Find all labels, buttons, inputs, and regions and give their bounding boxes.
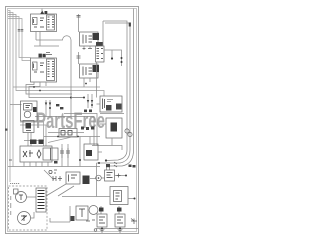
module K3 xyxy=(106,118,122,138)
watermark xyxy=(36,108,105,133)
node dots J1 wire xyxy=(121,57,123,63)
switch S1 box xyxy=(21,101,38,121)
S1 circle xyxy=(24,111,31,118)
IC module U3 xyxy=(100,96,122,112)
U3 left stub xyxy=(97,103,101,105)
small module left ML xyxy=(23,121,34,133)
K2 top tick marks xyxy=(46,53,52,55)
dashed enclosure xyxy=(9,186,48,230)
terminal circle xyxy=(94,229,97,232)
hatched blob xyxy=(83,176,90,185)
arrow pair A1 xyxy=(46,100,50,117)
B1 sub-box xyxy=(43,148,51,160)
dark marks near stem xyxy=(71,216,75,221)
K3 bottom stub xyxy=(111,138,113,146)
small mark under B1 xyxy=(54,161,58,164)
diagonal wire small xyxy=(44,170,54,180)
B0 inner boxes xyxy=(61,131,72,136)
wire mid horizontal 2 xyxy=(35,117,94,146)
diagonal feed xyxy=(48,137,74,143)
K2 inner pin marks xyxy=(34,62,55,77)
K1 inner pin marks xyxy=(34,17,55,27)
wire bus-left-2 xyxy=(8,13,13,167)
U3 small text marks xyxy=(107,100,113,102)
S1 inner box xyxy=(24,104,33,111)
capacitor C2 xyxy=(66,148,70,158)
module B7 xyxy=(76,206,88,220)
K1 label blob xyxy=(40,11,47,15)
B5 feed lines xyxy=(107,166,110,170)
R2 feed ticks xyxy=(77,56,81,58)
wire vertical right-mid xyxy=(96,163,98,197)
C7 marks below xyxy=(86,220,95,221)
motor circle C7 xyxy=(89,206,98,215)
resistor module R2 xyxy=(80,64,99,78)
resistor module R1 feed wire xyxy=(78,14,80,32)
connector strip J1 xyxy=(96,46,105,62)
R1 bottom stubs xyxy=(84,46,90,50)
module B5 xyxy=(105,170,115,181)
B1 bottom pins xyxy=(24,162,48,167)
junction dots row xyxy=(57,136,79,138)
node B xyxy=(83,97,85,99)
motor M2 xyxy=(18,212,31,225)
D1 D2 arrowheads xyxy=(87,100,93,106)
U3 inner marks xyxy=(103,99,105,110)
K2 label blob xyxy=(39,54,46,58)
wire mid horizontal 1 xyxy=(64,114,97,146)
component marks M xyxy=(56,104,63,109)
small parts pair xyxy=(52,176,62,181)
K1 bottom pins xyxy=(35,32,37,41)
schematic layer xyxy=(5,7,139,234)
R2 dark blob xyxy=(93,65,100,72)
R2 bottom stubs xyxy=(84,78,90,87)
relay module K2 xyxy=(31,58,57,82)
node mid xyxy=(79,159,81,161)
B1 sub-box 2 xyxy=(51,148,59,160)
unit2 ground xyxy=(118,229,123,232)
unit2 pin xyxy=(118,206,120,214)
bus connector circles xyxy=(125,129,129,133)
diode D3 xyxy=(131,219,137,225)
R1 dark blob xyxy=(93,33,100,40)
J2 pin bars xyxy=(38,191,45,209)
M1 wire xyxy=(27,196,37,198)
M1 inner marks xyxy=(19,195,23,200)
curve end ticks xyxy=(114,162,117,167)
R1 inner marks xyxy=(83,35,92,44)
bus wire 1 xyxy=(103,21,127,150)
wire after P1 xyxy=(101,177,104,179)
wire bus-left-1 xyxy=(8,11,10,183)
B5 top marks xyxy=(106,164,110,167)
wire bus-left-2 branch xyxy=(13,86,100,88)
node near R2 xyxy=(85,83,87,85)
wire bus-left-1 branch to S1 xyxy=(10,104,22,106)
wire from K1 pin2 xyxy=(34,45,59,47)
ML inner mark xyxy=(26,130,31,132)
nodes bus xyxy=(98,159,107,164)
B6 stubs xyxy=(97,197,135,199)
page border outer xyxy=(6,7,139,234)
B3 stubs xyxy=(90,137,102,153)
connector strip J2 xyxy=(36,188,46,212)
A1 arrowheads xyxy=(45,103,51,110)
connector ticks on bus xyxy=(18,30,24,32)
tick on left vertical xyxy=(9,159,12,161)
K1 feed to top border xyxy=(41,9,43,12)
wire from K1 with hop xyxy=(36,36,71,117)
connector strip J1 blob xyxy=(96,42,103,46)
M2 inner marks xyxy=(21,215,27,221)
wire bottom mid xyxy=(62,196,97,198)
wire node to diodes xyxy=(71,97,84,99)
B1 inner switch marks xyxy=(23,150,41,158)
S1 dark blob xyxy=(33,107,37,112)
unit1 ground xyxy=(100,229,105,232)
unit1 box xyxy=(97,214,107,227)
node B6 xyxy=(134,198,136,200)
switch assembly box B1 xyxy=(20,146,52,162)
motor M1 xyxy=(16,192,27,203)
M2 wire xyxy=(31,212,35,218)
pilot circle P1 xyxy=(96,175,102,181)
B6 inner marks xyxy=(116,193,120,199)
resistor module R2 feed wire xyxy=(78,52,80,64)
bus curve 3 xyxy=(108,150,134,166)
U3 dark blobs xyxy=(106,104,122,111)
wire vertical mid xyxy=(79,137,81,167)
wire bus-left-3 xyxy=(8,15,104,97)
K2 bottom pin s-curve 1 xyxy=(26,82,72,94)
border tick mark xyxy=(5,129,8,131)
enclosure side label xyxy=(10,196,12,215)
box under watermark B0 xyxy=(59,129,77,138)
bus corner mark xyxy=(129,23,131,27)
unit2 pin blob xyxy=(117,208,122,212)
B6 inner box xyxy=(114,191,122,202)
diagonal wire 2 xyxy=(58,186,74,196)
unit1 inner xyxy=(99,217,105,223)
node B5 xyxy=(125,175,127,177)
C1 C2 stubs xyxy=(62,144,68,167)
K3 inner dark box xyxy=(111,123,118,132)
B4 inner xyxy=(69,175,78,182)
R1 feed tick xyxy=(77,16,81,18)
vertical stem xyxy=(69,206,71,222)
wire sense stub xyxy=(111,50,113,58)
S1 inner box mark xyxy=(26,106,31,108)
bus curve 2 xyxy=(97,150,131,163)
diode D2 xyxy=(91,94,93,108)
wire bus-left-5 xyxy=(8,19,31,61)
J1 pin ticks xyxy=(97,49,104,59)
wire bus-left-4 xyxy=(8,17,31,58)
wire under K3 xyxy=(92,146,122,151)
S1 bottom pins xyxy=(28,133,31,147)
wire bottom right xyxy=(96,228,138,230)
diode D1 xyxy=(87,94,89,108)
marks right of B0 xyxy=(81,127,94,131)
diagonal wire 1 xyxy=(46,184,66,196)
bus wire 3 xyxy=(133,9,135,151)
wire row upper xyxy=(48,132,84,134)
wire row under watermark xyxy=(44,136,100,138)
wire hook xyxy=(50,218,70,222)
page border inner xyxy=(8,9,137,232)
unit2 box xyxy=(115,214,125,227)
wire B5 right xyxy=(115,175,127,177)
enclosure label xyxy=(10,183,20,185)
elbow wire under S1 a xyxy=(20,122,44,146)
unit1 pin blob xyxy=(99,208,104,212)
junction dots K2 xyxy=(33,86,41,91)
node central xyxy=(70,97,72,99)
wire long horizontal xyxy=(8,166,100,168)
small marks above mid wire xyxy=(84,110,92,113)
unit1 pin xyxy=(100,206,102,214)
mark top right xyxy=(129,165,136,168)
J1 top feed xyxy=(102,21,104,46)
unit2 inner xyxy=(117,217,123,223)
node S xyxy=(111,57,113,59)
relay module K1 xyxy=(31,14,57,32)
module B4 xyxy=(66,172,80,184)
ML inner blob xyxy=(26,123,32,129)
M1 aux box xyxy=(14,189,19,194)
wire to circle xyxy=(90,178,96,180)
B3 inner blob xyxy=(86,150,92,156)
bus wire 2 xyxy=(105,23,130,150)
label blobs above B1 xyxy=(30,140,44,145)
wire row left xyxy=(24,140,44,142)
R2 inner marks xyxy=(83,67,92,76)
resistor module R1 xyxy=(80,32,99,46)
K2 bottom pin s-curve 2 xyxy=(29,82,84,98)
small parts row xyxy=(49,170,57,174)
K3 left stub xyxy=(100,123,106,125)
B5 plus tick xyxy=(117,174,121,178)
wire vertical mid-right xyxy=(96,62,98,98)
bottom right nodes xyxy=(101,228,121,230)
bus curve 1 xyxy=(106,150,127,161)
U3 pin row below xyxy=(100,113,124,115)
capacitor C1 xyxy=(60,148,64,158)
B7 inner xyxy=(79,209,85,217)
wire J1 to node xyxy=(104,50,122,66)
K2 bottom pin 3 xyxy=(45,82,47,86)
elbow wire under S1 b xyxy=(20,125,46,146)
module B6 xyxy=(110,187,128,205)
B5 marks xyxy=(107,173,113,178)
module B3 xyxy=(84,144,98,160)
